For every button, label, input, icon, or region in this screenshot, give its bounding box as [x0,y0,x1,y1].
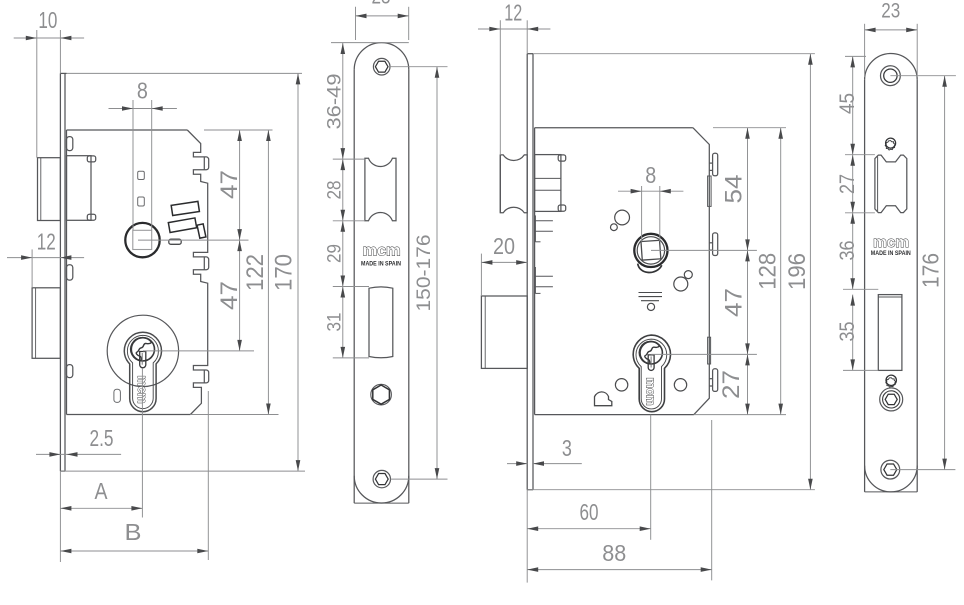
svg-text:20: 20 [493,233,515,259]
svg-text:47: 47 [216,170,243,199]
svg-text:35: 35 [836,322,859,342]
svg-text:36-49: 36-49 [323,74,345,130]
svg-text:88: 88 [602,540,626,566]
svg-text:mcm: mcm [643,378,658,406]
svg-text:122: 122 [242,254,269,291]
svg-text:MADE IN SPAIN: MADE IN SPAIN [871,250,911,257]
svg-text:12: 12 [504,0,522,25]
svg-text:23: 23 [881,0,900,23]
svg-text:27: 27 [836,174,859,194]
svg-text:28: 28 [323,181,345,200]
svg-text:128: 128 [755,253,782,290]
svg-text:B: B [125,519,142,545]
svg-text:196: 196 [784,253,811,290]
svg-text:176: 176 [917,253,943,288]
svg-text:mcm: mcm [363,243,401,260]
svg-text:45: 45 [836,93,859,114]
svg-text:31: 31 [323,313,345,332]
svg-text:10: 10 [38,7,57,33]
svg-text:60: 60 [580,499,599,525]
svg-text:A: A [95,478,109,504]
svg-text:23: 23 [372,0,391,9]
svg-text:8: 8 [137,77,148,103]
svg-text:150-176: 150-176 [413,235,435,312]
svg-text:MADE IN SPAIN: MADE IN SPAIN [361,260,401,267]
svg-text:8: 8 [645,162,656,188]
svg-text:2.5: 2.5 [90,425,114,451]
svg-text:12: 12 [37,228,56,254]
svg-text:170: 170 [270,254,297,291]
svg-text:29: 29 [323,244,345,263]
svg-text:47: 47 [720,288,747,317]
svg-text:47: 47 [216,281,243,310]
svg-text:54: 54 [720,175,747,204]
svg-text:3: 3 [562,435,572,461]
svg-text:36: 36 [836,241,859,261]
svg-text:mcm: mcm [873,234,909,251]
svg-text:27: 27 [718,370,745,399]
